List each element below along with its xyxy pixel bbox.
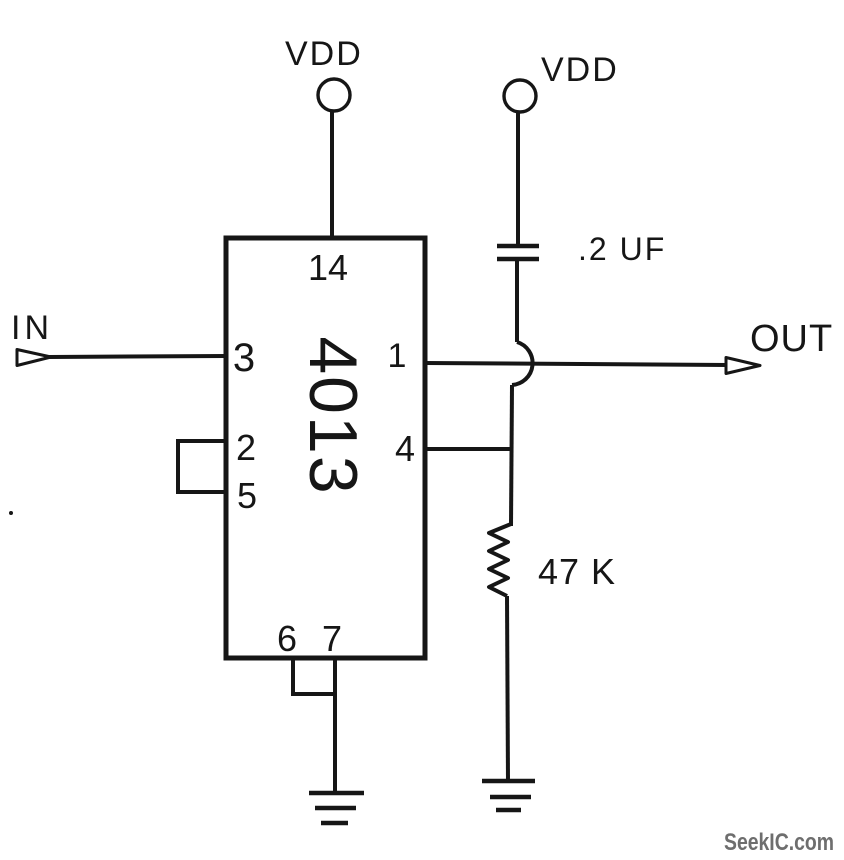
wire capacitor to hop bbox=[515, 259, 519, 342]
node OUT arrow bbox=[726, 358, 760, 374]
wire pin 7 to ground bbox=[333, 658, 337, 795]
wire hop over OUT line bbox=[512, 342, 533, 385]
svg-text:6: 6 bbox=[277, 618, 297, 659]
svg-text:VDD: VDD bbox=[541, 51, 619, 89]
svg-text:5: 5 bbox=[237, 475, 257, 516]
resistor R1 47K bbox=[489, 524, 511, 596]
speck bbox=[9, 511, 13, 515]
ground (right) bbox=[482, 781, 535, 810]
svg-text:.2 UF: .2 UF bbox=[578, 231, 666, 267]
svg-text:SeekIC.com: SeekIC.com bbox=[724, 829, 834, 856]
wire jumper pins 6-7 bbox=[293, 658, 335, 694]
svg-text:7: 7 bbox=[322, 618, 342, 659]
svg-text:VDD: VDD bbox=[285, 35, 363, 73]
svg-text:OUT: OUT bbox=[750, 318, 833, 360]
wire pin 4 bbox=[425, 447, 513, 451]
svg-text:4013: 4013 bbox=[295, 336, 371, 495]
wire IN to pin 3 bbox=[49, 356, 226, 357]
svg-text:2: 2 bbox=[236, 427, 256, 468]
wire VDD to pin 14 bbox=[330, 111, 334, 240]
svg-text:IN: IN bbox=[11, 309, 53, 347]
power symbol VDD (left supply) bbox=[285, 35, 363, 111]
svg-text:14: 14 bbox=[308, 247, 348, 288]
wire hop to resistor via pin 4 node bbox=[511, 385, 512, 526]
wire jumper pins 2-5 bbox=[178, 441, 226, 492]
ground (left) bbox=[309, 793, 364, 823]
node IN arrow bbox=[17, 350, 51, 366]
wire VDD to capacitor bbox=[516, 112, 520, 246]
svg-text:47 K: 47 K bbox=[538, 551, 616, 592]
op-amp U1 4013 IC body bbox=[226, 238, 425, 658]
svg-text:4: 4 bbox=[395, 428, 415, 469]
wire resistor to ground bbox=[507, 596, 508, 783]
power symbol VDD (right supply) bbox=[504, 51, 619, 112]
capacitor C1 .2 UF bbox=[497, 246, 539, 259]
svg-text:1: 1 bbox=[388, 337, 407, 375]
wire pin 1 to OUT bbox=[425, 363, 728, 365]
svg-text:3: 3 bbox=[233, 336, 255, 380]
